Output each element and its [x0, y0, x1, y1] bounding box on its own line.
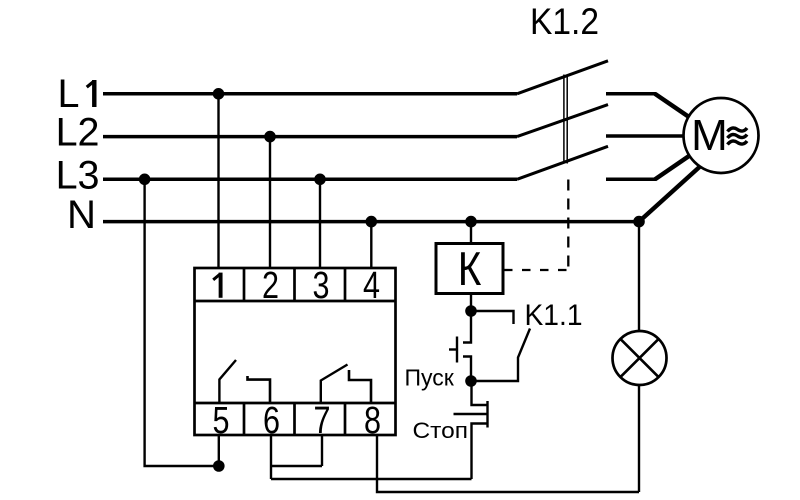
stop button SB2	[454, 381, 488, 479]
svg-text:L2: L2	[56, 111, 100, 155]
wire terminal 4 drop	[370, 222, 372, 268]
junction dot N/term4	[366, 216, 378, 228]
wire pole 1 to motor	[655, 94, 689, 117]
wire pole 1 output	[606, 92, 656, 96]
wire terminal 1 drop	[217, 94, 219, 268]
motor AC waves	[728, 128, 748, 145]
lamp HL1	[613, 331, 667, 385]
wire coil to node A	[470, 294, 472, 312]
wire lamp to terminal 8	[638, 384, 640, 492]
relay box top row line	[195, 300, 396, 303]
pin number 1	[213, 273, 220, 298]
junction dot terminal 5	[213, 460, 225, 472]
svg-text:L3: L3	[56, 154, 100, 198]
svg-text:K1.1: K1.1	[525, 299, 583, 332]
wire pole 3 to motor	[655, 156, 689, 179]
svg-text:Пуск: Пуск	[405, 365, 455, 391]
wire terminal 7 drop	[321, 435, 323, 466]
wire N bus	[103, 220, 639, 224]
wire terminal 3 drop	[319, 179, 321, 268]
wire terminal 6 drop	[270, 435, 272, 479]
relay contact blade 7	[321, 365, 348, 404]
wire motor neutral	[639, 167, 700, 222]
contact K1.1 blade	[471, 329, 530, 382]
junction dot node A	[465, 305, 477, 317]
label L1	[58, 72, 95, 116]
junction dot N/coil	[465, 216, 477, 228]
start button SB1	[449, 311, 471, 381]
relay contact 8 fixed	[349, 370, 371, 403]
svg-text:Стоп: Стоп	[413, 418, 469, 443]
svg-text:N: N	[67, 193, 96, 237]
junction dot L1/term1	[213, 88, 225, 100]
wire L3 to terminal 5	[145, 179, 219, 466]
svg-text:K1.2: K1.2	[530, 0, 599, 42]
relay top row dividers	[244, 268, 345, 301]
svg-text:8: 8	[364, 400, 381, 442]
svg-text:5: 5	[213, 400, 230, 442]
svg-text:M: M	[691, 111, 728, 160]
wire terminal 8 to lamp	[377, 435, 639, 492]
contactor K1.2 pole 1 blade	[517, 61, 608, 94]
relay box outline	[195, 268, 396, 435]
wire L2 bus	[103, 135, 517, 139]
contactor K1.2 pole 3 blade	[517, 146, 608, 179]
wire pole 2 output to motor	[606, 134, 686, 138]
junction dot L2/term2	[264, 131, 276, 143]
relay bottom row dividers	[244, 403, 345, 435]
relay box bottom row line	[195, 402, 396, 405]
wire terminal 2 drop	[269, 137, 271, 268]
svg-text:2: 2	[262, 265, 279, 307]
contact K1.1 fixed	[471, 311, 514, 324]
wire terminal 5 stub	[218, 435, 220, 466]
junction dot node B	[465, 375, 477, 387]
wire L1 bus	[103, 92, 517, 96]
dashed link from K1.2 to coil	[504, 180, 568, 272]
relay contact blade 5	[219, 360, 236, 403]
svg-text:3: 3	[313, 265, 330, 307]
wire terminal 6 to 7	[271, 465, 322, 467]
motor M1 circle	[684, 98, 759, 173]
wire L3 bus	[103, 178, 517, 182]
wire N to lamp	[638, 222, 640, 332]
contactor K1.2 pole 2 blade	[517, 105, 608, 137]
svg-text:L: L	[58, 72, 80, 116]
coil K box	[436, 244, 503, 294]
junction dot L3 left	[139, 174, 151, 186]
relay contact 6 fixed	[248, 376, 271, 403]
svg-text:4: 4	[363, 265, 380, 307]
contactor K1.2 linkage bar	[564, 75, 567, 164]
junction dot L3/term3	[314, 174, 326, 186]
wire N to coil	[470, 222, 472, 244]
junction dot N/lamp	[633, 216, 645, 228]
svg-text:К: К	[458, 243, 482, 296]
wire terminal 6 to stop button	[271, 478, 472, 480]
wire pole 3 output	[606, 178, 656, 182]
